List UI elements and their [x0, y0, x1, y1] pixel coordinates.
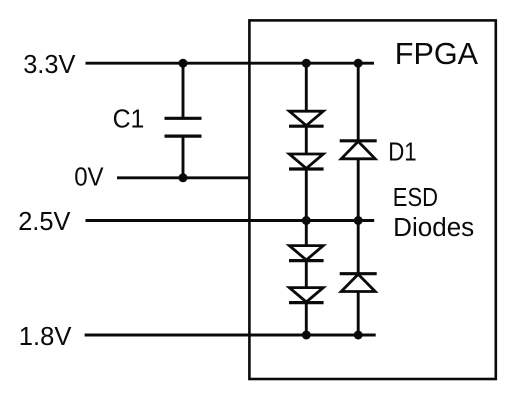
wire 2.5V rail [86, 219, 375, 222]
diode D-R2 (right column lower) [340, 274, 377, 292]
wire 3.3V rail [86, 62, 375, 65]
diode D-L1 [289, 111, 324, 126]
junction dot 3.3V / left column [302, 59, 311, 68]
svg-text:C1: C1 [113, 106, 145, 134]
wire right column segment b [357, 159, 360, 274]
diode D-L2 [289, 154, 324, 169]
junction dot 1.8V / left column [302, 331, 311, 340]
wire right column segment c [357, 292, 360, 336]
svg-text:2.5V: 2.5V [18, 208, 70, 236]
svg-text:D1: D1 [388, 139, 416, 167]
wire left column segment b [305, 126, 308, 154]
FPGA box U1 [249, 20, 495, 379]
junction dot 1.8V / right column [354, 331, 363, 340]
wire 0V rail [117, 176, 249, 179]
svg-text:ESD: ESD [393, 184, 438, 212]
svg-text:FPGA: FPGA [395, 37, 479, 71]
wire capacitor bottom lead [182, 138, 185, 178]
junction dot 0V / C1 [179, 173, 188, 182]
junction dot 2.5V / right column [354, 216, 363, 225]
svg-text:1.8V: 1.8V [19, 323, 72, 351]
junction dot 2.5V / left column [302, 216, 311, 225]
junction dot 3.3V / right column [354, 59, 363, 68]
wire 1.8V rail [85, 334, 376, 337]
wire left column segment e [305, 303, 308, 335]
svg-text:0V: 0V [74, 163, 103, 191]
wire left column segment c [305, 169, 308, 246]
svg-text:Diodes: Diodes [393, 214, 474, 242]
capacitor C1 [165, 118, 202, 136]
wire left column segment d [305, 261, 308, 288]
diode D1 (right column upper) [340, 141, 377, 159]
wire left column segment a [305, 63, 308, 111]
diode D-L4 [289, 288, 324, 303]
wire right column segment a [357, 63, 360, 141]
wire capacitor top lead [182, 63, 185, 117]
diode D-L3 [289, 246, 324, 261]
junction dot 3.3V / C1 [179, 59, 188, 68]
svg-text:3.3V: 3.3V [23, 51, 75, 79]
